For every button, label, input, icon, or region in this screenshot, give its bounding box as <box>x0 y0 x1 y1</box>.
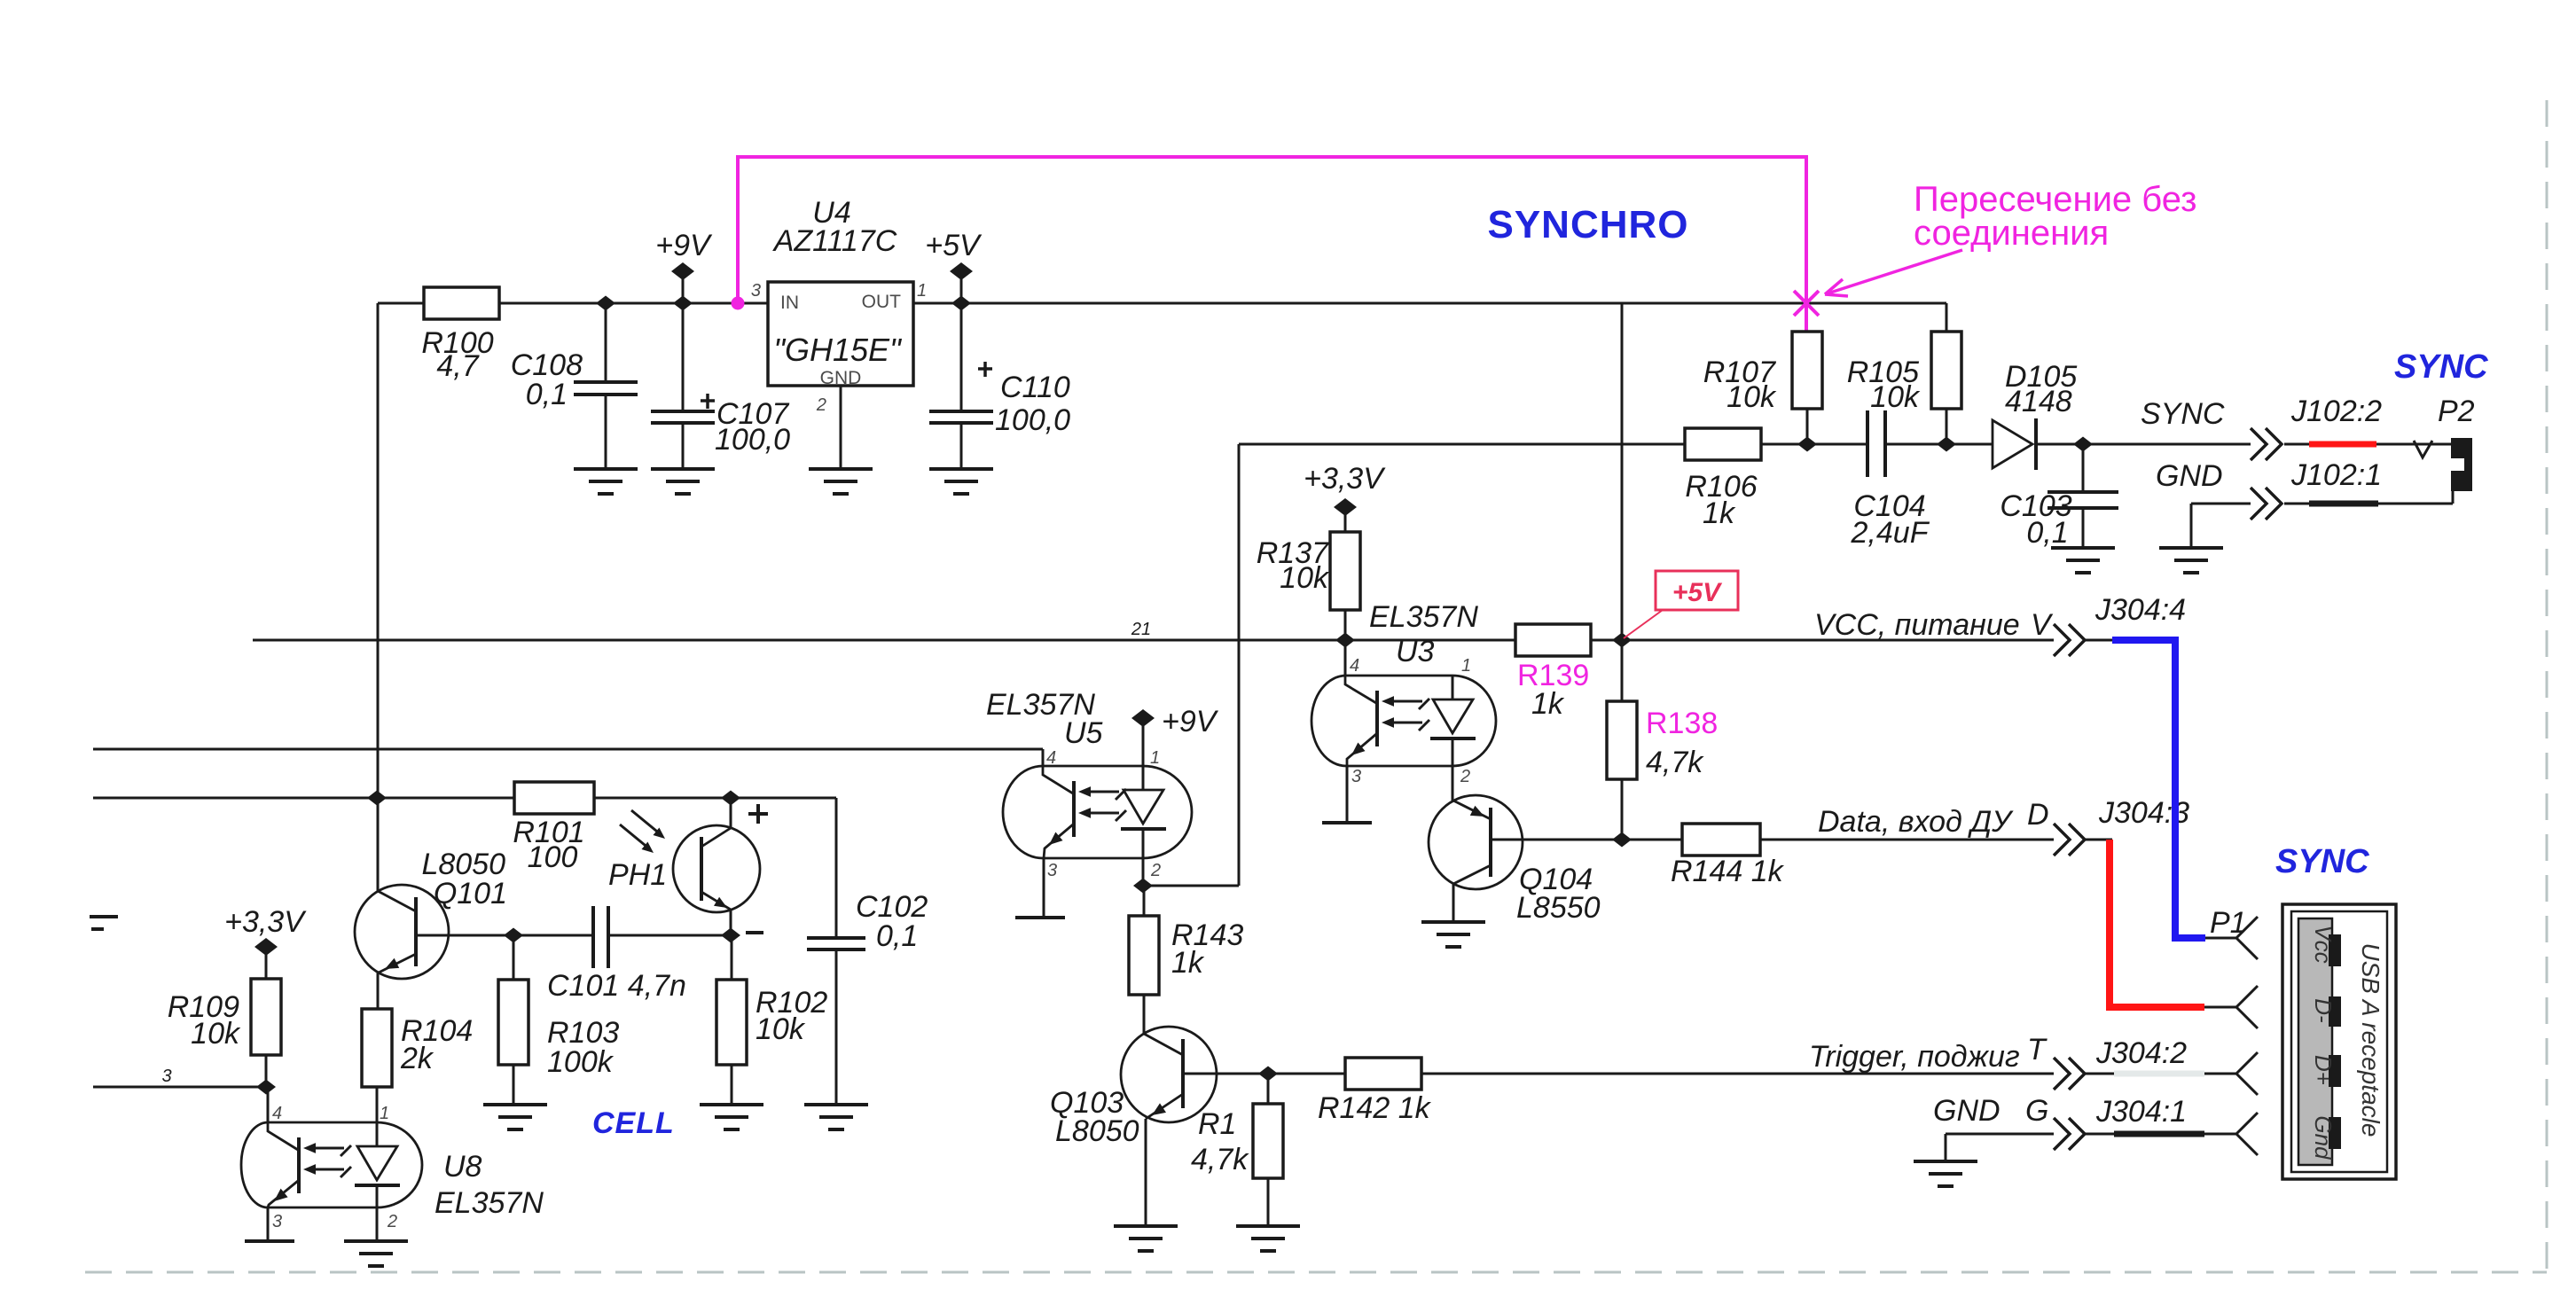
U5 photodiode <box>1121 766 1166 858</box>
resistor R101 <box>514 782 594 814</box>
svg-text:2: 2 <box>816 395 826 415</box>
junction SYNC/C103 <box>2073 437 2093 452</box>
connector USB A receptacle body <box>2282 904 2396 1179</box>
label C104 2,4uF <box>1851 489 1930 550</box>
label Vcc <box>2310 925 2337 963</box>
svg-text:AZ1117C: AZ1117C <box>772 224 897 258</box>
svg-text:10k: 10k <box>1726 380 1777 414</box>
pin 2 (U3) <box>1460 767 1470 786</box>
label CELL <box>592 1106 675 1140</box>
svg-text:3: 3 <box>161 1067 171 1086</box>
label J304:1 <box>2095 1095 2187 1129</box>
wire J102 GND row <box>2191 491 2453 548</box>
power +9V node <box>671 262 694 303</box>
junction R107 bottom <box>1797 437 1817 452</box>
chevron J304:1 <box>2054 1118 2085 1150</box>
pin 3 (U5) <box>1047 861 1057 880</box>
chevron P1 D+ <box>2236 1052 2258 1095</box>
svg-text:4: 4 <box>1350 656 1359 676</box>
label C108 0,1 <box>511 348 583 411</box>
pin 2 (U8) <box>387 1212 397 1231</box>
svg-text:IN: IN <box>780 293 799 313</box>
svg-text:3: 3 <box>272 1212 282 1231</box>
label R103 100k <box>547 1016 619 1079</box>
label SYNC blue (USB) <box>2275 843 2369 880</box>
capacitor C110 (electrolytic) <box>929 303 993 469</box>
svg-text:L8550: L8550 <box>1516 891 1601 925</box>
label +9V <box>655 229 713 262</box>
label J102:1 <box>2290 458 2382 492</box>
annotation arrow (magenta) <box>1825 250 1962 296</box>
svg-text:EL357N: EL357N <box>435 1186 544 1220</box>
junction R137 bottom <box>1335 633 1355 648</box>
label R100 4,7 <box>421 326 493 383</box>
wire Q104 collector to ground <box>1452 884 1455 922</box>
power +3,3V node (R109) <box>254 938 278 979</box>
ground C108 <box>574 469 638 494</box>
label J304:4 <box>2094 593 2186 627</box>
svg-text:2: 2 <box>1150 861 1161 880</box>
label P1 <box>2210 906 2247 940</box>
pin 2 (U4) <box>816 395 826 415</box>
ground R102 <box>700 1105 763 1129</box>
svg-text:+9V: +9V <box>1162 705 1219 738</box>
svg-text:C110: C110 <box>1000 371 1070 404</box>
label Q103 L8050 <box>1050 1086 1139 1148</box>
phototransistor PH1 <box>673 825 760 912</box>
pin 4 (U3) <box>1350 656 1359 676</box>
svg-text:J304:1: J304:1 <box>2095 1095 2187 1129</box>
svg-text:соединения: соединения <box>1914 214 2109 253</box>
resistor R103 <box>498 935 529 1105</box>
ground J304 GND <box>1914 1161 1977 1186</box>
wire magenta from U4 IN to R107 (no-connect crossing) <box>732 157 1807 332</box>
pin 3 (U8) <box>272 1212 282 1231</box>
pin 1 (U5) <box>1150 748 1160 768</box>
label R101 100 <box>513 816 584 874</box>
label GND (U4) <box>820 368 862 388</box>
label GND (net) <box>2156 459 2223 493</box>
label R1 4,7k <box>1191 1107 1249 1176</box>
capacitor C107 (electrolytic) <box>651 303 715 469</box>
svg-text:U3: U3 <box>1396 635 1435 668</box>
wire SYNC row segment 2 <box>1761 443 1867 446</box>
label R102 10k <box>756 986 827 1046</box>
label J304:2 <box>2095 1036 2187 1070</box>
svg-text:USB A receptacle: USB A receptacle <box>2357 943 2384 1137</box>
U5 light arrows <box>1078 786 1126 821</box>
svg-text:GND: GND <box>1933 1094 2001 1128</box>
wire Data row <box>1622 839 2112 841</box>
wire SYNC row segment 5 <box>2284 443 2309 446</box>
label OUT <box>862 292 902 312</box>
svg-text:J304:2: J304:2 <box>2095 1036 2187 1070</box>
resistor R105 <box>1931 332 1961 444</box>
resistor R106 <box>1685 428 1761 460</box>
wire P1 Vcc tail <box>2205 937 2236 940</box>
ground R1 <box>1236 1226 1300 1251</box>
svg-text:CELL: CELL <box>592 1106 675 1140</box>
resistor R107 <box>1792 332 1822 444</box>
svg-text:EL357N: EL357N <box>1369 600 1478 634</box>
U8 light arrows <box>303 1143 351 1177</box>
label AZ1117C <box>772 224 897 258</box>
label Trigger поджиг <box>1809 1033 2047 1074</box>
resistor R139 <box>1515 624 1591 656</box>
label R104 2k <box>400 1014 473 1075</box>
svg-text:1k: 1k <box>1171 946 1205 980</box>
resistor R137 <box>1330 532 1360 640</box>
resistor R109 <box>251 979 281 1087</box>
svg-text:100,0: 100,0 <box>715 423 790 457</box>
wire PH1 collector <box>730 798 732 827</box>
junction R105 bottom <box>1937 437 1956 452</box>
resistor R142 <box>1345 1058 1421 1090</box>
label GH15E <box>773 332 903 368</box>
capacitor C108 <box>574 303 638 469</box>
power +3,3V node (R137) <box>1334 498 1357 532</box>
label PH1 <box>608 858 667 892</box>
PH1 light arrows <box>620 810 665 853</box>
optocoupler U5 body <box>1003 766 1192 858</box>
label D- <box>2310 998 2337 1023</box>
svg-text:2,4uF: 2,4uF <box>1851 516 1930 550</box>
wire Q103 emitter to ground <box>1145 1119 1147 1226</box>
svg-text:1: 1 <box>917 281 927 301</box>
check mark P2 <box>2414 441 2432 457</box>
svg-text:10k: 10k <box>191 1017 241 1051</box>
resistor R102 <box>716 935 747 1105</box>
label D105 4148 <box>2005 360 2077 418</box>
svg-text:U8: U8 <box>443 1150 482 1184</box>
svg-text:Trigger, поджиг: Trigger, поджиг <box>1809 1040 2020 1074</box>
wire top +9V/+5V rail left segment <box>378 302 768 305</box>
svg-text:T: T <box>2027 1033 2047 1067</box>
svg-text:10k: 10k <box>756 1012 806 1046</box>
U3 light arrows <box>1382 696 1429 731</box>
label D+ <box>2310 1055 2337 1085</box>
label Пересечение без соединения <box>1914 180 2196 253</box>
label C110 plus <box>978 362 992 377</box>
svg-text:3: 3 <box>1351 767 1361 786</box>
power +5V node <box>950 262 973 303</box>
ground Q104 <box>1421 922 1485 947</box>
terminal bar U5 pin3 <box>1015 916 1065 919</box>
svg-text:+5V: +5V <box>925 229 983 262</box>
svg-text:R144 1k: R144 1k <box>1671 855 1785 888</box>
junction PH1 collector <box>721 791 740 806</box>
label R105 10k <box>1847 356 1921 414</box>
chevron J304:2 <box>2054 1058 2085 1090</box>
svg-text:4148: 4148 <box>2005 385 2072 418</box>
wire SYNC row segment 4 <box>2037 443 2251 446</box>
pin 1 (U8) <box>380 1104 389 1123</box>
svg-text:+9V: +9V <box>655 229 713 262</box>
wire R105 top stub <box>1946 303 1948 332</box>
wire P1 D- tail <box>2204 1006 2236 1009</box>
chevron J102:1 <box>2251 488 2282 520</box>
wire U5 pin4 line <box>93 749 1043 766</box>
chevron J102:2 <box>2251 428 2282 460</box>
resistor R144 <box>1682 824 1760 856</box>
ground C103 <box>2051 548 2115 573</box>
junction Q101 collector <box>367 791 387 806</box>
optocoupler U8 body <box>241 1122 422 1207</box>
svg-text:SYNC: SYNC <box>2141 397 2225 431</box>
pin 4 (U8) <box>272 1104 282 1123</box>
junction Q103 base/R1 <box>1258 1067 1278 1082</box>
svg-text:0,1: 0,1 <box>526 378 568 411</box>
svg-text:10k: 10k <box>1280 561 1330 595</box>
label R143 1k <box>1171 918 1243 980</box>
label +3,3V (R137) <box>1304 462 1386 496</box>
svg-text:100,0: 100,0 <box>995 403 1070 437</box>
pin 3 (U3) <box>1351 767 1361 786</box>
label 21 <box>1131 620 1151 639</box>
svg-text:R142 1k: R142 1k <box>1318 1091 1432 1125</box>
resistor R138 <box>1607 640 1637 840</box>
svg-text:1k: 1k <box>1703 496 1736 530</box>
no-connect X mark <box>1794 291 1819 316</box>
label PH1 plus <box>748 804 768 824</box>
junction PH1 emitter <box>721 928 740 943</box>
ground U4 <box>809 469 873 494</box>
label L8050 Q101 <box>421 848 507 910</box>
wire SYNC row segment 1 <box>1239 443 1685 446</box>
svg-text:4: 4 <box>1046 748 1056 768</box>
junction R109/U8 <box>256 1080 276 1095</box>
svg-text:R138: R138 <box>1646 707 1718 740</box>
svg-text:100: 100 <box>528 840 578 874</box>
svg-text:V: V <box>2031 608 2054 642</box>
svg-text:0,1: 0,1 <box>876 919 918 953</box>
label USB A receptacle <box>2357 943 2384 1137</box>
wire R101 line left <box>93 797 514 800</box>
wire trigger white highlight <box>2114 1071 2204 1077</box>
svg-text:2: 2 <box>1460 767 1470 786</box>
label Q104 L8550 <box>1516 863 1601 925</box>
svg-text:3: 3 <box>1047 861 1057 880</box>
label EL357N (U5) <box>986 688 1103 750</box>
optocoupler U3 body <box>1311 676 1496 766</box>
chevron P1 Vcc <box>2236 917 2258 959</box>
label C107 100,0 <box>715 397 790 457</box>
svg-text:L8050: L8050 <box>1055 1114 1139 1148</box>
regulator U4 AZ1117C box <box>768 282 913 386</box>
svg-text:PH1: PH1 <box>608 858 667 892</box>
svg-text:3: 3 <box>751 281 761 301</box>
resistor R100 <box>424 287 499 319</box>
U3 phototransistor <box>1345 676 1377 766</box>
wire SYNC row segment 3 <box>1885 443 1993 446</box>
U8 phototransistor <box>268 1122 299 1207</box>
wire U8 pin3 stub <box>267 1207 270 1241</box>
capacitor C101 <box>593 906 731 968</box>
svg-text:1: 1 <box>1461 656 1471 676</box>
wire U3 pin4 <box>1344 640 1347 676</box>
label R139 <box>1517 659 1589 692</box>
svg-text:C101 4,7n: C101 4,7n <box>547 969 686 1003</box>
label C110 100,0 <box>995 371 1070 437</box>
U5 phototransistor <box>1043 766 1074 858</box>
wire gnd black highlight <box>2114 1131 2204 1137</box>
svg-text:"GH15E": "GH15E" <box>773 332 903 368</box>
wire U8 pin4 <box>267 1087 270 1122</box>
wire U5 pin3 stub <box>1043 858 1045 918</box>
svg-text:Vcc: Vcc <box>2310 925 2337 963</box>
junction U5 pin2 <box>1133 879 1153 894</box>
ground C107 <box>651 469 715 494</box>
svg-text:2k: 2k <box>400 1042 435 1075</box>
junction C101/R103 <box>504 928 523 943</box>
label U4 <box>812 196 850 230</box>
svg-text:4,7: 4,7 <box>436 349 479 383</box>
label R106 1k <box>1685 470 1757 530</box>
wire red (Data to P1) <box>2110 840 2204 1007</box>
chevron J304:4 <box>2054 624 2085 656</box>
svg-text:SYNC: SYNC <box>2394 348 2488 386</box>
label J102:2 <box>2290 395 2382 428</box>
svg-text:Data, вход ДУ: Data, вход ДУ <box>1818 805 2014 839</box>
junction VCC/R138 <box>1612 633 1632 648</box>
wire red highlight J102:2 <box>2309 442 2376 448</box>
pin 4 (U5) <box>1046 748 1056 768</box>
pin 2 (U5) <box>1150 861 1161 880</box>
svg-text:4: 4 <box>272 1104 282 1123</box>
resistor R143 <box>1129 886 1159 995</box>
label 3 (net) <box>161 1067 171 1086</box>
wire top rail right segment (U4 OUT to R105) <box>913 302 1946 305</box>
label SYNCHRO <box>1487 203 1688 246</box>
svg-text:1k: 1k <box>1531 687 1565 721</box>
dashed border right <box>2546 100 2549 1272</box>
wire vertical x1829 (top rail to VCC junction) <box>1621 303 1624 640</box>
label PH1 minus <box>746 931 763 934</box>
label R138 <box>1646 707 1718 740</box>
power +9V node (U5) <box>1131 709 1155 766</box>
svg-text:GND: GND <box>820 368 862 388</box>
svg-text:GND: GND <box>2156 459 2223 493</box>
transistor Q104 (L8550) <box>1429 795 1622 889</box>
wire U4 GND pin <box>840 386 842 469</box>
label +3,3V (R109) <box>224 905 307 939</box>
label +9V (U5) <box>1162 705 1219 738</box>
junction +9V <box>673 296 693 311</box>
label R144 1k <box>1671 855 1785 888</box>
connector P2 <box>2451 438 2472 491</box>
label SYNC (net) <box>2141 397 2225 431</box>
svg-text:U5: U5 <box>1064 716 1103 750</box>
wire U3 pin2 to Q104 <box>1452 766 1454 801</box>
wire U8 pin2 stub <box>376 1207 379 1241</box>
wire R101 line right <box>594 797 836 800</box>
pin 1 (U3) <box>1461 656 1471 676</box>
wire SYNC row segment 6 <box>2376 443 2451 446</box>
svg-text:2: 2 <box>387 1212 397 1231</box>
resistor R1 <box>1253 1074 1283 1226</box>
svg-text:D+: D+ <box>2310 1055 2337 1085</box>
svg-text:J304:4: J304:4 <box>2094 593 2186 627</box>
label R138 4,7k <box>1646 746 1704 779</box>
label C101 4,7n <box>547 969 686 1003</box>
label C107 plus <box>701 394 715 409</box>
label R142 1k <box>1318 1091 1432 1125</box>
label Data вход ДУ <box>1818 798 2049 839</box>
wire left vertical from top rail to Q101 collector <box>377 303 380 891</box>
resistor R104 <box>362 1009 392 1122</box>
svg-text:D: D <box>2027 798 2049 832</box>
wire Q101 emitter to R104 <box>377 973 380 1009</box>
wire vertical riser x1397 (U5 pin2 net to SYNC row) <box>1238 444 1241 886</box>
svg-text:OUT: OUT <box>862 292 902 312</box>
svg-text:+3,3V: +3,3V <box>224 905 307 939</box>
svg-text:P2: P2 <box>2438 395 2475 428</box>
svg-text:D-: D- <box>2310 998 2337 1023</box>
wire R143 to Q103 <box>1143 995 1146 1034</box>
ground U8 pin2 <box>344 1241 408 1266</box>
svg-text:SYNCHRO: SYNCHRO <box>1487 203 1688 246</box>
U8 photodiode <box>355 1122 400 1207</box>
label Gnd <box>2310 1115 2337 1160</box>
svg-text:SYNC: SYNC <box>2275 843 2369 880</box>
svg-text:100k: 100k <box>547 1045 615 1079</box>
diode D105 <box>1993 418 2036 470</box>
junction +5V <box>951 296 971 311</box>
chevron J304:3 <box>2054 824 2085 856</box>
svg-text:VCC, питание: VCC, питание <box>1814 608 2020 642</box>
label J304:3 <box>2098 796 2189 830</box>
label GND G (J304) <box>1933 1094 2048 1128</box>
wire J304 GND row <box>1946 1134 2236 1161</box>
svg-text:G: G <box>2025 1094 2048 1128</box>
svg-text:J102:2: J102:2 <box>2290 395 2382 428</box>
svg-text:4,7k: 4,7k <box>1646 746 1704 779</box>
label IN <box>780 293 799 313</box>
svg-text:0,1: 0,1 <box>2026 516 2068 550</box>
chevron P1 D- <box>2236 986 2258 1028</box>
label SYNC blue (P2) <box>2394 348 2488 386</box>
ground J102 GND <box>2159 548 2223 573</box>
svg-text:J102:1: J102:1 <box>2290 458 2382 492</box>
capacitor C104 <box>1867 410 1885 477</box>
junction C108 <box>596 296 615 311</box>
label EL357N (U3) <box>1369 600 1478 668</box>
wire U3 pin3 stub <box>1346 766 1349 823</box>
capacitor C103 <box>2047 444 2118 548</box>
ground Q103 <box>1114 1226 1178 1251</box>
wire Trigger row <box>1268 1073 2236 1075</box>
label U8 EL357N <box>435 1150 544 1220</box>
svg-text:1: 1 <box>380 1104 389 1123</box>
svg-text:4,7k: 4,7k <box>1191 1143 1249 1176</box>
label C103 0,1 <box>2000 489 2071 550</box>
terminal bar U8 pin3 <box>245 1239 294 1243</box>
ground C110 <box>929 469 993 494</box>
label R137 10k <box>1257 536 1330 595</box>
pin 3 (U4) <box>751 281 761 301</box>
label +5V <box>925 229 983 262</box>
ground C102 <box>804 1105 868 1129</box>
svg-text:21: 21 <box>1131 620 1151 639</box>
wire PH1 emitter <box>730 910 732 935</box>
capacitor C102 <box>807 798 865 1105</box>
svg-text:1: 1 <box>1150 748 1160 768</box>
ground R103 <box>483 1105 547 1129</box>
svg-text:+3,3V: +3,3V <box>1304 462 1386 496</box>
U3 photodiode <box>1430 676 1476 766</box>
svg-text:R1: R1 <box>1198 1107 1236 1141</box>
svg-text:Gnd: Gnd <box>2310 1115 2337 1160</box>
